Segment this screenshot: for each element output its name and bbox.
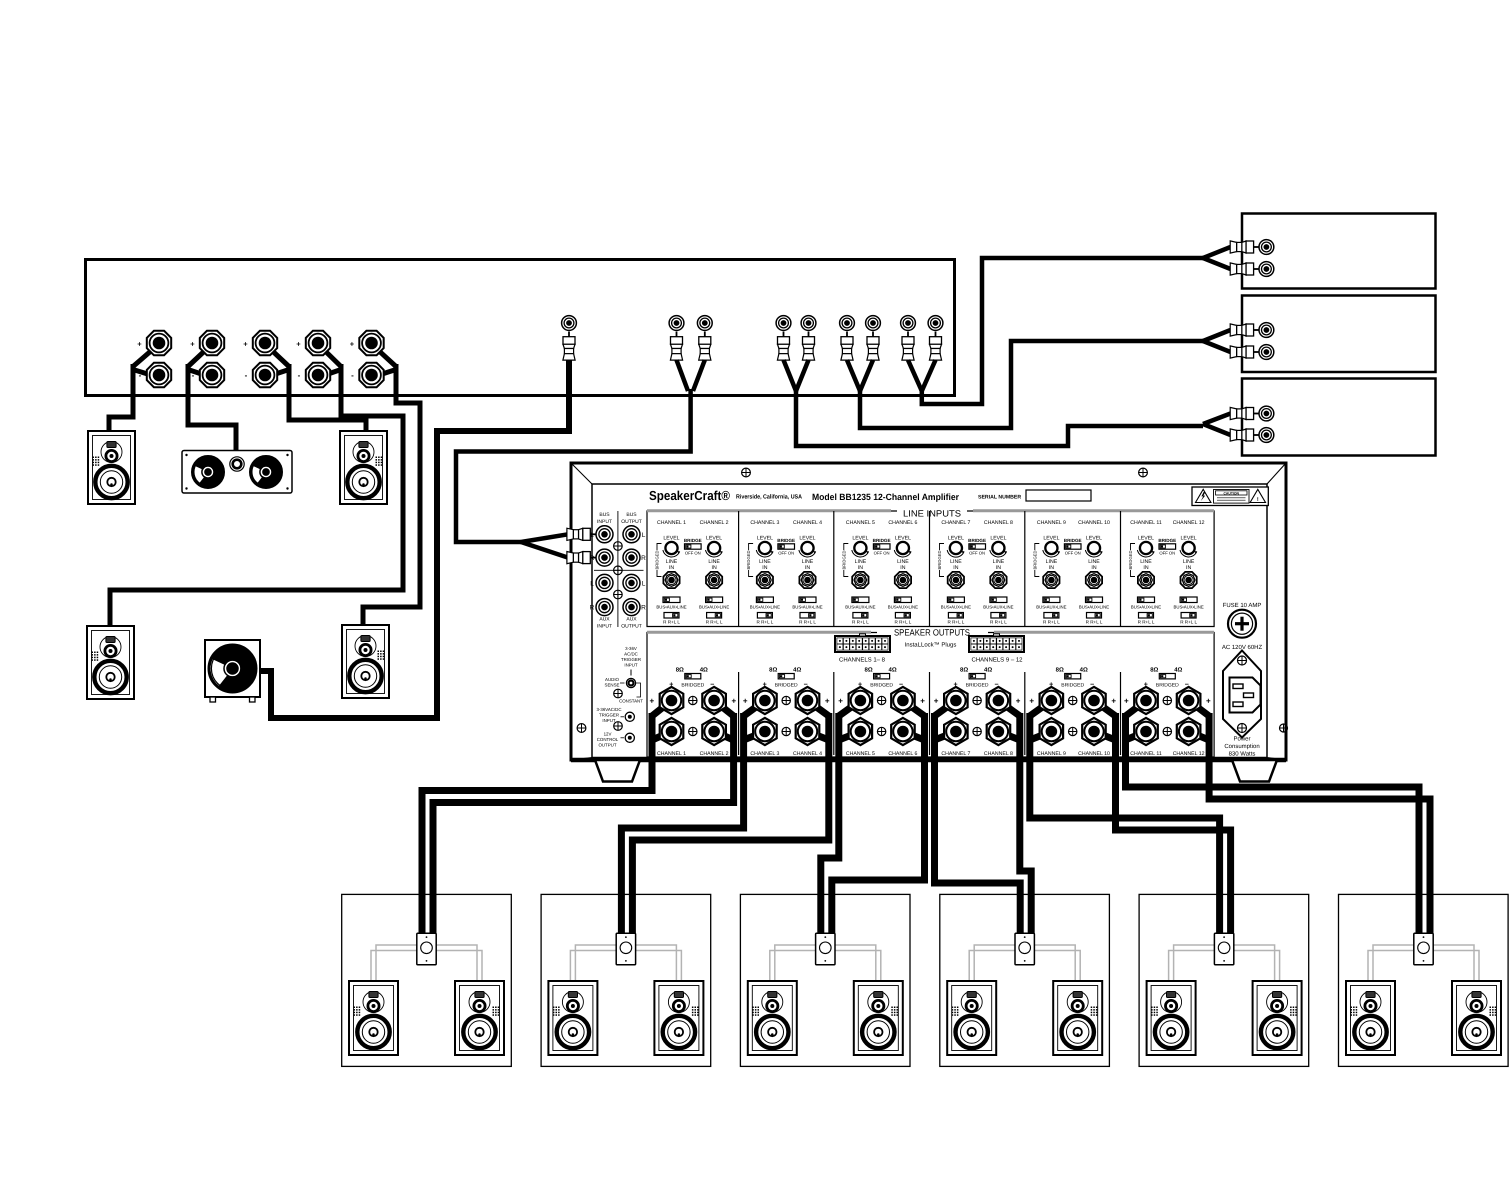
svg-text:OUTPUT: OUTPUT <box>621 519 642 525</box>
svg-text:LEVEL: LEVEL <box>1043 536 1059 542</box>
svg-text:Power: Power <box>1233 736 1250 743</box>
svg-text:+: + <box>743 697 748 706</box>
svg-text:-: - <box>1207 728 1210 737</box>
svg-text:R: R <box>590 605 595 612</box>
svg-text:CHANNELS 9 – 12: CHANNELS 9 – 12 <box>971 657 1023 664</box>
svg-text:8Ω: 8Ω <box>676 667 684 674</box>
svg-text:-: - <box>298 371 301 380</box>
svg-text:BUS•AUX•LINE: BUS•AUX•LINE <box>1131 605 1161 610</box>
svg-text:OFF ON: OFF ON <box>969 551 985 556</box>
svg-text:R R+L L: R R+L L <box>1180 620 1197 625</box>
svg-text:BRIDGED: BRIDGED <box>966 683 989 689</box>
svg-text:BUS: BUS <box>599 512 610 518</box>
svg-text:+: + <box>1029 697 1034 706</box>
svg-text:LEVEL: LEVEL <box>757 536 773 542</box>
svg-text:R: R <box>641 605 646 612</box>
svg-text:BRIDGE: BRIDGE <box>1064 538 1082 543</box>
svg-text:OFF ON: OFF ON <box>1065 551 1081 556</box>
svg-text:R: R <box>590 555 595 562</box>
svg-text:CHANNEL 4: CHANNEL 4 <box>793 520 822 526</box>
svg-text:CHANNEL 11: CHANNEL 11 <box>1130 520 1162 526</box>
svg-text:CHANNEL 6: CHANNEL 6 <box>888 520 917 526</box>
svg-text:CHANNEL 6: CHANNEL 6 <box>888 751 917 757</box>
svg-text:!: ! <box>1257 497 1259 503</box>
svg-text:BUS•AUX•LINE: BUS•AUX•LINE <box>750 605 780 610</box>
svg-text:IN: IN <box>1091 565 1096 571</box>
svg-text:8Ω: 8Ω <box>960 667 968 674</box>
svg-text:R R+L L: R R+L L <box>947 620 964 625</box>
svg-text:8Ω: 8Ω <box>769 667 777 674</box>
svg-text:IN: IN <box>1049 565 1054 571</box>
svg-text:BRIDGED: BRIDGED <box>841 550 846 569</box>
svg-text:R R+L L: R R+L L <box>706 620 723 625</box>
svg-text:CHANNEL 8: CHANNEL 8 <box>984 520 1013 526</box>
svg-text:Model BB1235 12-Channel Amplif: Model BB1235 12-Channel Amplifier <box>812 492 959 502</box>
svg-text:+: + <box>825 697 830 706</box>
svg-text:IN: IN <box>669 565 674 571</box>
svg-text:4Ω: 4Ω <box>889 667 897 674</box>
svg-text:BRIDGED: BRIDGED <box>937 550 942 569</box>
svg-text:Riverside, California, USA: Riverside, California, USA <box>736 494 803 501</box>
svg-text:-: - <box>826 728 829 737</box>
svg-text:BUS•AUX•LINE: BUS•AUX•LINE <box>888 605 918 610</box>
svg-text:INPUT: INPUT <box>624 663 637 668</box>
svg-text:R R+L L: R R+L L <box>894 620 911 625</box>
svg-text:CHANNEL 9: CHANNEL 9 <box>1037 520 1066 526</box>
svg-text:R R+L L: R R+L L <box>663 620 680 625</box>
svg-text:-: - <box>839 728 842 737</box>
svg-text:R R+L L: R R+L L <box>1138 620 1155 625</box>
svg-text:+: + <box>296 340 301 349</box>
svg-text:CHANNEL 9: CHANNEL 9 <box>1037 751 1066 757</box>
svg-text:CHANNEL 1: CHANNEL 1 <box>657 520 686 526</box>
svg-text:L: L <box>642 532 646 539</box>
svg-text:-: - <box>732 728 735 737</box>
svg-text:IN: IN <box>1186 565 1191 571</box>
svg-text:+: + <box>137 340 142 349</box>
svg-text:12V: 12V <box>604 732 612 737</box>
svg-text:R R+L L: R R+L L <box>852 620 869 625</box>
svg-text:LEVEL: LEVEL <box>706 536 722 542</box>
svg-text:CHANNEL 2: CHANNEL 2 <box>700 520 729 526</box>
svg-text:BRIDGE: BRIDGE <box>684 538 702 543</box>
svg-text:INPUT: INPUT <box>597 624 612 630</box>
svg-text:8Ω: 8Ω <box>1150 667 1158 674</box>
svg-text:BRIDGE: BRIDGE <box>968 538 986 543</box>
svg-text:BUS•AUX•LINE: BUS•AUX•LINE <box>699 605 729 610</box>
svg-text:+: + <box>1206 697 1211 706</box>
svg-text:IN: IN <box>712 565 717 571</box>
svg-text:-: - <box>744 728 747 737</box>
svg-text:INPUT: INPUT <box>602 718 615 723</box>
svg-text:SERIAL NUMBER: SERIAL NUMBER <box>978 495 1021 501</box>
svg-text:-: - <box>245 371 248 380</box>
svg-text:BUS•AUX•LINE: BUS•AUX•LINE <box>941 605 971 610</box>
svg-text:LEVEL: LEVEL <box>948 536 964 542</box>
svg-text:BUS•AUX•LINE: BUS•AUX•LINE <box>1079 605 1109 610</box>
svg-text:CHANNELS 1– 8: CHANNELS 1– 8 <box>839 657 886 664</box>
svg-text:CHANNEL 12: CHANNEL 12 <box>1173 751 1205 757</box>
svg-text:AUX: AUX <box>599 617 610 623</box>
svg-text:OFF ON: OFF ON <box>874 551 890 556</box>
svg-text:-: - <box>935 728 938 737</box>
svg-text:+: + <box>1124 697 1129 706</box>
svg-text:CHANNEL 7: CHANNEL 7 <box>941 520 970 526</box>
svg-text:4Ω: 4Ω <box>1080 667 1088 674</box>
svg-text:BRIDGE: BRIDGE <box>777 538 795 543</box>
svg-text:-: - <box>1030 728 1033 737</box>
svg-text:OUTPUT: OUTPUT <box>621 624 642 630</box>
svg-text:4Ω: 4Ω <box>793 667 801 674</box>
svg-text:BRIDGE: BRIDGE <box>873 538 891 543</box>
svg-text:+: + <box>731 697 736 706</box>
svg-text:CHANNEL 5: CHANNEL 5 <box>846 520 875 526</box>
svg-text:LEVEL: LEVEL <box>799 536 815 542</box>
svg-text:LEVEL: LEVEL <box>895 536 911 542</box>
svg-text:+: + <box>838 697 843 706</box>
svg-text:OUTPUT: OUTPUT <box>598 743 616 748</box>
svg-text:CHANNEL 2: CHANNEL 2 <box>700 751 729 757</box>
svg-text:CHANNEL 12: CHANNEL 12 <box>1173 520 1205 526</box>
svg-text:R R+L L: R R+L L <box>756 620 773 625</box>
svg-text:R R+L L: R R+L L <box>1043 620 1060 625</box>
svg-text:R R+L L: R R+L L <box>990 620 1007 625</box>
svg-text:R R+L L: R R+L L <box>1086 620 1103 625</box>
svg-text:OFF ON: OFF ON <box>685 551 701 556</box>
svg-text:BRIDGED: BRIDGED <box>681 683 704 689</box>
svg-text:IN: IN <box>953 565 958 571</box>
svg-text:BUS: BUS <box>626 512 637 518</box>
svg-text:+: + <box>934 697 939 706</box>
svg-text:CONTROL: CONTROL <box>597 737 619 742</box>
svg-text:CHANNEL 10: CHANNEL 10 <box>1078 520 1110 526</box>
svg-text:FUSE 10 AMP: FUSE 10 AMP <box>1223 602 1262 609</box>
svg-text:AUDIO: AUDIO <box>605 677 619 682</box>
svg-text:TRIGGER: TRIGGER <box>621 657 641 662</box>
svg-text:-: - <box>351 371 354 380</box>
svg-text:BRIDGED: BRIDGED <box>1128 550 1133 569</box>
svg-text:3-36VAC/DC: 3-36VAC/DC <box>596 707 621 712</box>
svg-text:+: + <box>190 340 195 349</box>
svg-text:-: - <box>1112 728 1115 737</box>
svg-text:IN: IN <box>1143 565 1148 571</box>
svg-text:CHANNEL 3: CHANNEL 3 <box>750 520 779 526</box>
svg-text:LEVEL: LEVEL <box>852 536 868 542</box>
svg-text:L: L <box>642 580 646 587</box>
svg-text:CHANNEL 8: CHANNEL 8 <box>984 751 1013 757</box>
svg-text:BRIDGED: BRIDGED <box>1032 550 1037 569</box>
svg-text:OFF ON: OFF ON <box>778 551 794 556</box>
svg-text:BRIDGED: BRIDGED <box>1156 683 1179 689</box>
svg-text:BUS•AUX•LINE: BUS•AUX•LINE <box>983 605 1013 610</box>
svg-text:INPUT: INPUT <box>597 519 612 525</box>
svg-text:CHANNEL 10: CHANNEL 10 <box>1078 751 1110 757</box>
svg-text:CHANNEL 3: CHANNEL 3 <box>750 751 779 757</box>
svg-text:BUS•AUX•LINE: BUS•AUX•LINE <box>845 605 875 610</box>
svg-text:TRIGGER: TRIGGER <box>599 713 619 718</box>
svg-text:L: L <box>590 532 594 539</box>
svg-text:BRIDGE: BRIDGE <box>1158 538 1176 543</box>
svg-text:OFF ON: OFF ON <box>1159 551 1175 556</box>
svg-text:830 Watts: 830 Watts <box>1229 751 1256 758</box>
svg-text:SENSE: SENSE <box>605 683 620 688</box>
svg-text:BUS•AUX•LINE: BUS•AUX•LINE <box>1173 605 1203 610</box>
svg-text:LEVEL: LEVEL <box>1086 536 1102 542</box>
svg-text:LEVEL: LEVEL <box>990 536 1006 542</box>
svg-text:BUS•AUX•LINE: BUS•AUX•LINE <box>1036 605 1066 610</box>
svg-text:R: R <box>641 555 646 562</box>
svg-text:BRIDGED: BRIDGED <box>1061 683 1084 689</box>
svg-text:CHANNEL 4: CHANNEL 4 <box>793 751 822 757</box>
svg-text:8Ω: 8Ω <box>865 667 873 674</box>
svg-text:L: L <box>590 580 594 587</box>
svg-text:+: + <box>350 340 355 349</box>
svg-text:InstaLLock™ Plugs: InstaLLock™ Plugs <box>905 642 957 649</box>
svg-text:SPEAKER OUTPUTS: SPEAKER OUTPUTS <box>894 628 970 638</box>
svg-text:-: - <box>650 728 653 737</box>
svg-text:IN: IN <box>996 565 1001 571</box>
svg-text:+: + <box>1016 697 1021 706</box>
svg-text:CAUTION: CAUTION <box>1223 491 1239 495</box>
svg-text:CHANNEL 1: CHANNEL 1 <box>657 751 686 757</box>
svg-text:AC/DC: AC/DC <box>624 652 638 657</box>
svg-text:4Ω: 4Ω <box>700 667 708 674</box>
svg-text:IN: IN <box>858 565 863 571</box>
svg-text:-: - <box>921 728 924 737</box>
svg-text:+: + <box>920 697 925 706</box>
svg-text:BRIDGED: BRIDGED <box>870 683 893 689</box>
svg-text:LEVEL: LEVEL <box>1138 536 1154 542</box>
svg-text:4Ω: 4Ω <box>1174 667 1182 674</box>
svg-text:BRIDGED: BRIDGED <box>746 550 751 569</box>
svg-text:LEVEL: LEVEL <box>1181 536 1197 542</box>
svg-text:AUX: AUX <box>626 617 637 623</box>
svg-text:IN: IN <box>900 565 905 571</box>
svg-text:+: + <box>1111 697 1116 706</box>
svg-text:Consumption: Consumption <box>1224 743 1259 750</box>
svg-text:IN: IN <box>762 565 767 571</box>
svg-text:+: + <box>649 697 654 706</box>
svg-text:CONSTANT: CONSTANT <box>619 699 643 704</box>
svg-text:3-36V: 3-36V <box>625 646 637 651</box>
svg-text:8Ω: 8Ω <box>1056 667 1064 674</box>
svg-text:CHANNEL 7: CHANNEL 7 <box>941 751 970 757</box>
svg-text:BRIDGED: BRIDGED <box>775 683 798 689</box>
svg-text:+: + <box>243 340 248 349</box>
svg-text:4Ω: 4Ω <box>984 667 992 674</box>
svg-text:-: - <box>1017 728 1020 737</box>
svg-text:SpeakerCraft®: SpeakerCraft® <box>649 488 730 503</box>
svg-text:BRIDGED: BRIDGED <box>655 550 660 569</box>
svg-text:R R+L L: R R+L L <box>799 620 816 625</box>
svg-text:BUS•AUX•LINE: BUS•AUX•LINE <box>792 605 822 610</box>
svg-text:LEVEL: LEVEL <box>663 536 679 542</box>
svg-text:IN: IN <box>805 565 810 571</box>
svg-text:LINE INPUTS: LINE INPUTS <box>903 509 961 519</box>
svg-text:CHANNEL 5: CHANNEL 5 <box>846 751 875 757</box>
svg-text:CHANNEL 11: CHANNEL 11 <box>1130 751 1162 757</box>
svg-text:BUS•AUX•LINE: BUS•AUX•LINE <box>656 605 686 610</box>
svg-text:-: - <box>1125 728 1128 737</box>
